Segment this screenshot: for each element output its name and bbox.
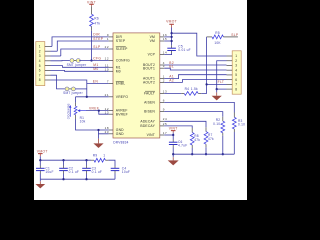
wire STEP net xyxy=(57,41,108,51)
wire R6 to CONFIG net xyxy=(91,26,93,30)
svg-text:10k: 10k xyxy=(80,120,86,124)
svg-text:VM: VM xyxy=(150,39,155,43)
junction C3 top xyxy=(85,159,87,161)
wire VM2 net xyxy=(164,40,171,42)
schematic page xyxy=(34,0,247,200)
svg-text:VINT: VINT xyxy=(87,0,96,4)
wire C4 bottom xyxy=(114,171,116,174)
junction R6-CONFIG xyxy=(90,59,92,61)
svg-text:10uF: 10uF xyxy=(122,170,130,174)
svg-text:0.1 uF: 0.1 uF xyxy=(69,170,80,174)
capacitor C4 xyxy=(111,167,120,169)
svg-text:VINT: VINT xyxy=(169,127,178,131)
svg-text:VREF: VREF xyxy=(89,106,99,110)
resistor R6 body xyxy=(90,14,94,26)
svg-text:clockwise: clockwise xyxy=(66,103,70,119)
wire GND stem (C6) xyxy=(172,154,174,157)
svg-text:1: 1 xyxy=(235,54,237,58)
wire C1 leads xyxy=(39,160,41,165)
junction VM1 xyxy=(170,36,172,38)
wire BVREF branch xyxy=(99,111,109,115)
svg-text:5: 5 xyxy=(39,64,41,68)
svg-text:R9: R9 xyxy=(93,153,98,157)
wire VREFO net xyxy=(76,96,109,98)
junction GND right header xyxy=(216,88,218,90)
wire R5 right to SLP stub xyxy=(223,36,238,38)
wire VMOT vertical xyxy=(171,24,173,27)
svg-text:47k: 47k xyxy=(94,21,100,25)
svg-text:15: 15 xyxy=(163,37,167,41)
wire AOUT2 net xyxy=(164,80,226,83)
svg-text:1: 1 xyxy=(39,45,41,49)
svg-text:4.7uF: 4.7uF xyxy=(178,144,187,148)
wire SLP net xyxy=(61,49,109,56)
svg-text:4: 4 xyxy=(235,68,237,72)
wire header pin7 to SMT jumper xyxy=(51,75,66,89)
svg-text:6: 6 xyxy=(235,78,237,82)
junction VM2 xyxy=(170,40,172,42)
svg-text:SLP: SLP xyxy=(231,33,239,37)
svg-text:VMOT: VMOT xyxy=(37,150,48,154)
wire R2 bottom to rail xyxy=(222,133,224,136)
wire BOUT2 net xyxy=(164,64,226,66)
svg-text:M0: M0 xyxy=(93,67,98,71)
svg-text:6: 6 xyxy=(163,98,165,102)
potentiometer R1 body xyxy=(74,106,77,115)
svg-text:BDECAY: BDECAY xyxy=(140,124,155,128)
wire EN net xyxy=(51,80,109,84)
svg-text:1: 1 xyxy=(103,153,105,157)
potentiometer R1 wiper arrow xyxy=(80,110,86,112)
wire VREFO to R1 top xyxy=(75,97,77,103)
ground symbol (right header) xyxy=(212,96,222,101)
wire AOUT1 net xyxy=(164,75,226,79)
svg-text:R5: R5 xyxy=(215,31,220,35)
wire VMOT rail xyxy=(40,159,91,161)
wire VINT to C6 xyxy=(172,135,174,140)
svg-text:VCP: VCP xyxy=(148,53,156,57)
capacitor C2 xyxy=(59,167,68,169)
ground symbol (C6) xyxy=(168,160,179,165)
wire BDECAY net xyxy=(164,126,192,128)
wire VM1 net xyxy=(164,36,171,38)
svg-text:CONFIG: CONFIG xyxy=(116,59,130,63)
wire C3 leads xyxy=(86,160,88,165)
wire GND stem right header xyxy=(216,89,218,92)
svg-text:6: 6 xyxy=(39,69,41,73)
svg-text:10K: 10K xyxy=(214,41,221,45)
svg-text:B1: B1 xyxy=(169,64,174,68)
svg-text:47k: 47k xyxy=(208,137,214,141)
wire rail to C4 xyxy=(105,159,108,161)
wire VINT supply to node xyxy=(172,131,174,133)
resistor R9 body xyxy=(94,158,105,162)
SMT jumper J3 pads xyxy=(70,59,74,63)
junction FLT xyxy=(205,83,207,85)
svg-text:24: 24 xyxy=(163,117,167,121)
svg-text:8: 8 xyxy=(235,87,237,91)
wire R1 bottom to GND row xyxy=(75,115,77,119)
svg-text:0.10: 0.10 xyxy=(238,123,245,127)
wire BOUT1 net xyxy=(164,68,226,70)
wire CONFIG net (jumper to IC) xyxy=(79,60,108,62)
svg-text:BVREF: BVREF xyxy=(116,112,128,116)
svg-text:0.01 uF: 0.01 uF xyxy=(178,48,191,52)
connector J1 1x8 header body xyxy=(36,42,45,86)
svg-text:2: 2 xyxy=(39,49,41,53)
connector J2 1x8 header body xyxy=(232,51,241,94)
svg-text:VREFO: VREFO xyxy=(116,95,129,99)
IC left pin stubs and numbers xyxy=(109,36,113,38)
wire VINT to R6 xyxy=(91,6,93,14)
capacitor C6 xyxy=(169,141,178,143)
wire GND pins join xyxy=(99,129,109,131)
svg-text:CFG: CFG xyxy=(93,56,101,60)
svg-text:BISEN: BISEN xyxy=(144,110,155,114)
svg-text:13: 13 xyxy=(163,89,167,93)
svg-text:AOUT2: AOUT2 xyxy=(143,81,155,85)
svg-text:A2: A2 xyxy=(169,79,174,83)
svg-text:VMOT: VMOT xyxy=(166,19,177,23)
wire BISEN net xyxy=(164,112,223,117)
wire R4 to FLT row xyxy=(198,92,201,94)
resistor R3 body xyxy=(232,117,236,129)
svg-text:14: 14 xyxy=(163,51,167,55)
svg-text:M0: M0 xyxy=(116,69,121,73)
junction GND pins xyxy=(97,129,99,131)
wire header pin8 GND xyxy=(217,88,227,90)
capacitor C1 xyxy=(36,167,45,169)
junction C2 bottom xyxy=(62,178,64,180)
svg-text:9: 9 xyxy=(163,108,165,112)
svg-text:25: 25 xyxy=(163,122,167,126)
wire GND rail (sense) xyxy=(173,153,234,155)
IC right pin stubs and numbers xyxy=(160,36,165,38)
wire VREF net xyxy=(86,110,109,112)
junction C2 top xyxy=(62,159,64,161)
svg-text:ENBL: ENBL xyxy=(116,82,125,86)
wire R3 bottom to rail xyxy=(233,129,235,132)
wire ADECAY net xyxy=(164,121,206,127)
ground symbol (IC GND) xyxy=(93,143,103,148)
wire header pin2 to GND riser xyxy=(217,61,227,89)
junction C6 rail xyxy=(172,153,174,155)
svg-text:7: 7 xyxy=(39,73,41,77)
capacitor C3 xyxy=(82,167,91,169)
resistor R2 body xyxy=(221,121,225,133)
wire R5 left lead down to FLT xyxy=(207,36,212,38)
wire jumper J4 to VREFO riser xyxy=(75,88,86,90)
svg-text:STEP: STEP xyxy=(116,39,126,43)
resistor R8 body xyxy=(190,132,194,145)
svg-text:5: 5 xyxy=(235,73,237,77)
svg-text:10uF: 10uF xyxy=(45,170,53,174)
svg-text:ADECAY: ADECAY xyxy=(140,119,155,123)
svg-text:GND: GND xyxy=(116,132,124,136)
junction C3 bottom xyxy=(85,178,87,180)
IC U1 DRV8834 body xyxy=(113,33,160,138)
svg-text:R6: R6 xyxy=(94,16,99,20)
svg-text:3: 3 xyxy=(39,54,41,58)
wire CONFIG net (header to jumper) xyxy=(51,60,70,62)
wire VINT net xyxy=(164,134,173,136)
junction VINT xyxy=(172,134,174,136)
junction VREF branch xyxy=(98,109,100,111)
svg-text:STEP: STEP xyxy=(93,37,103,41)
wire DIR net xyxy=(52,37,109,47)
wire VMOT to header pin1 xyxy=(172,33,227,56)
resistor R7 body xyxy=(204,132,208,145)
resistor R5 body xyxy=(212,35,223,39)
svg-text:VINT: VINT xyxy=(147,133,155,137)
svg-text:DRV8834: DRV8834 xyxy=(113,140,129,144)
SMT jumper J4 pads xyxy=(65,87,69,91)
wire R8 bottom to rail xyxy=(191,145,193,148)
wire M0 net xyxy=(51,69,109,72)
svg-text:SLEEP: SLEEP xyxy=(116,47,128,51)
svg-text:0.10: 0.10 xyxy=(213,122,220,126)
wire VMOT drop xyxy=(39,154,41,157)
wire C2 leads xyxy=(63,160,65,165)
svg-text:SLP: SLP xyxy=(93,45,101,49)
capacitor C5 xyxy=(167,47,176,49)
junction VREFO riser xyxy=(86,96,88,98)
svg-text:3: 3 xyxy=(235,64,237,68)
svg-text:2: 2 xyxy=(235,59,237,63)
svg-text:0.1 uF: 0.1 uF xyxy=(92,170,103,174)
svg-text:17: 17 xyxy=(163,131,167,135)
wire AISEN net xyxy=(164,102,234,112)
svg-text:SMT jumper: SMT jumper xyxy=(67,63,87,67)
wire GND stem xyxy=(98,134,100,139)
resistor R4 body xyxy=(184,92,198,96)
wire riser jumper to ENBL row xyxy=(86,84,88,97)
svg-text:BOUT1: BOUT1 xyxy=(143,66,155,70)
wire FAULT to R4 xyxy=(164,92,181,94)
junction C1 top xyxy=(39,159,41,161)
svg-text:23: 23 xyxy=(105,130,109,134)
wire GND rail (bottom) xyxy=(40,178,115,180)
wire C5 to VCP xyxy=(171,51,173,54)
svg-text:FAULT: FAULT xyxy=(144,92,155,96)
wire M1 net xyxy=(51,66,109,68)
junction VMOT feed xyxy=(170,32,172,34)
junction R8 rail xyxy=(191,153,193,155)
svg-text:AISEN: AISEN xyxy=(144,101,155,105)
wire C6 to GND rail xyxy=(172,145,174,148)
svg-text:FLT: FLT xyxy=(218,80,225,84)
svg-text:1.5k: 1.5k xyxy=(191,87,198,91)
svg-text:8: 8 xyxy=(39,78,41,82)
ground symbol (bottom left) xyxy=(35,184,45,188)
wire R7 bottom to rail xyxy=(205,144,207,147)
clockwise annotation arrow xyxy=(69,108,71,117)
wire GND stem (bottom) xyxy=(39,179,41,181)
svg-text:47k: 47k xyxy=(194,138,200,142)
svg-text:SMT jumper: SMT jumper xyxy=(63,91,83,95)
svg-text:R4: R4 xyxy=(185,87,190,91)
svg-text:EN: EN xyxy=(93,79,99,83)
svg-text:7: 7 xyxy=(235,83,237,87)
svg-text:4: 4 xyxy=(39,59,41,63)
junction R2 rail xyxy=(222,153,224,155)
junction R7 rail xyxy=(205,153,207,155)
